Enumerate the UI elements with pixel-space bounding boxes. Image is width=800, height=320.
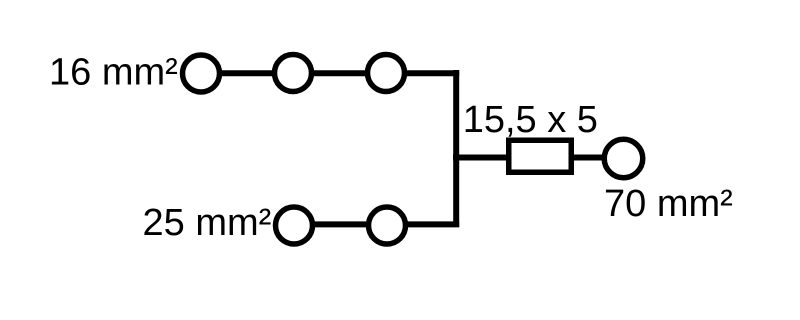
wire bottom branch (294, 221, 459, 227)
svg-text:25 mm²: 25 mm² (143, 202, 272, 244)
svg-text:16 mm²: 16 mm² (49, 52, 178, 94)
svg-text:70 mm²: 70 mm² (604, 183, 733, 225)
terminal circle T2 (16 mm² row) (275, 55, 312, 92)
wire top branch (201, 70, 459, 76)
terminal circle T1 (16 mm² row) (183, 55, 220, 92)
terminal circle B1 (25 mm² row) (276, 207, 313, 244)
terminal circle R1 (70 mm²) (604, 139, 643, 178)
wire vertical trunk (453, 70, 459, 227)
terminal circle T3 (16 mm² row) (368, 55, 405, 92)
terminal circle B2 (25 mm² row) (369, 207, 406, 244)
busbar rectangle 15,5 x 5 (509, 140, 572, 172)
svg-text:15,5 x 5: 15,5 x 5 (463, 99, 598, 141)
wire middle branch to busbar and terminal (453, 155, 604, 161)
